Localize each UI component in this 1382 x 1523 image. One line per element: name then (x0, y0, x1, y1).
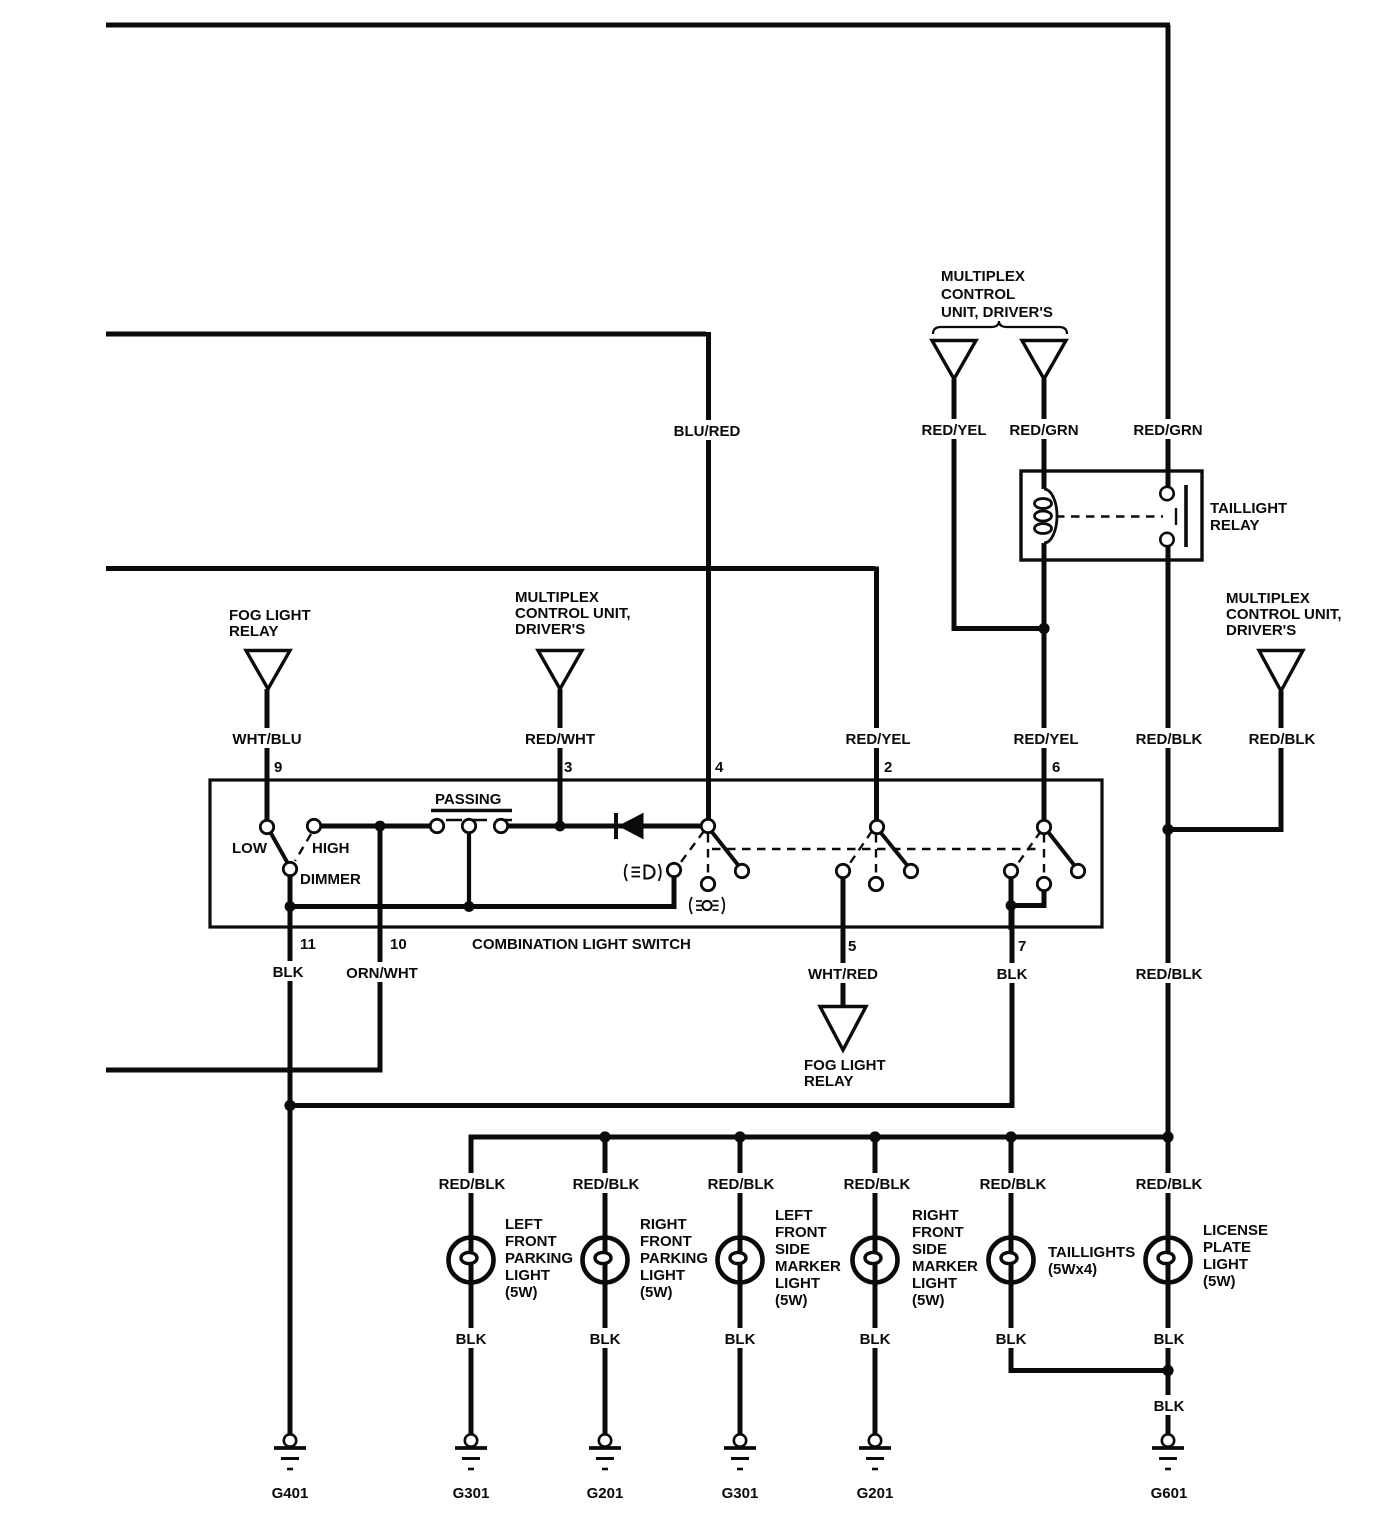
wire: dashed pin2 to left contact (848, 831, 872, 866)
svg-text:RELAY: RELAY (229, 623, 278, 640)
svg-text:LICENSE: LICENSE (1203, 1222, 1268, 1239)
lamp: left front side marker light bulb (718, 1238, 763, 1283)
wire: pin 9 WHT/BLU stem into switch (265, 689, 270, 827)
svg-text:ORN/WHT: ORN/WHT (346, 965, 418, 982)
wire: dashed pin2 to middle contact (875, 834, 877, 879)
wire: BLU/RED vertical to pin 4 (706, 332, 711, 826)
contact circle: HIGH (307, 819, 320, 832)
contact circle: pin 4 pivot (701, 819, 714, 832)
connector triangle: multiplex control unit driver's (pin 3) (538, 651, 582, 690)
brace over multiplex triangles (933, 321, 1067, 334)
contact circle: pin6 right contact (1071, 864, 1084, 877)
svg-text:FRONT: FRONT (505, 1233, 557, 1250)
svg-text:G301: G301 (722, 1485, 759, 1502)
wire: RED/GRN vertical, relay coil to pin 6 (1042, 558, 1047, 827)
svg-text:PARKING: PARKING (505, 1250, 573, 1267)
svg-text:PASSING: PASSING (435, 791, 501, 808)
junction: BLK pin 11 node (284, 1100, 295, 1111)
contact circle: pin 6 pivot (1037, 820, 1050, 833)
wire: dimmer wiper to node, and node bus to headlight contact (290, 870, 674, 907)
wire: lamp drop taillights (1009, 1136, 1014, 1238)
wire: BLU/RED feed horizontal (106, 332, 706, 337)
svg-text:10: 10 (390, 936, 407, 953)
svg-text:(5W): (5W) (1203, 1273, 1236, 1290)
wire: lamp drop right front parking (603, 1136, 608, 1238)
svg-text:RED/BLK: RED/BLK (1249, 731, 1316, 748)
wire: HIGH contact to passing switch (320, 824, 432, 829)
wire: pin 7 BLK down from link (1009, 903, 1014, 930)
wire: RED/BLK stem from right multiplex triangle to main bus (1168, 691, 1281, 830)
svg-text:RED/YEL: RED/YEL (845, 731, 910, 748)
wire: lamp drop left front parking (469, 1282, 474, 1434)
taillight relay coil stem top (1042, 469, 1047, 489)
lamp: license plate light bulb (1146, 1238, 1191, 1283)
taillight relay actuator dashed link (1056, 515, 1163, 517)
wire: dashed dimmer link HIGH to wiper (295, 834, 311, 861)
svg-text:LEFT: LEFT (505, 1216, 543, 1233)
svg-text:RIGHT: RIGHT (640, 1216, 687, 1233)
svg-text:RED/BLK: RED/BLK (1136, 1176, 1203, 1193)
svg-text:CONTROL UNIT,: CONTROL UNIT, (1226, 606, 1342, 623)
svg-text:MARKER: MARKER (912, 1258, 978, 1275)
wire: dashed pin6 to left contact (1016, 831, 1041, 866)
svg-text:COMBINATION LIGHT SWITCH: COMBINATION LIGHT SWITCH (472, 936, 691, 953)
svg-text:RED/BLK: RED/BLK (439, 1176, 506, 1193)
svg-text:RELAY: RELAY (804, 1073, 853, 1090)
svg-text:11: 11 (300, 936, 316, 953)
svg-text:RED/WHT: RED/WHT (525, 731, 595, 748)
svg-text:RED/BLK: RED/BLK (1136, 966, 1203, 983)
svg-text:7: 7 (1018, 938, 1026, 955)
lamp filament wires through bulbs (469, 1238, 474, 1282)
svg-text:(5Wx4): (5Wx4) (1048, 1261, 1097, 1278)
wire: right main vertical, top to taillight relay contact (1166, 25, 1171, 488)
contact circle: pin6 middle contact (1037, 877, 1050, 890)
svg-text:RED/BLK: RED/BLK (573, 1176, 640, 1193)
svg-text:UNIT, DRIVER'S: UNIT, DRIVER'S (941, 304, 1053, 321)
junction: lamp bus at taillights (1005, 1131, 1016, 1142)
svg-text:LEFT: LEFT (775, 1207, 813, 1224)
wire: pin 5 WHT/RED stem to fog light relay (841, 871, 846, 1006)
svg-text:RIGHT: RIGHT (912, 1207, 959, 1224)
wire: top feed bus horizontal (106, 23, 1170, 28)
ground G201 (right front side marker) (859, 1434, 891, 1469)
svg-text:BLK: BLK (996, 1331, 1027, 1348)
lamp: taillights bulb (989, 1238, 1034, 1283)
svg-text:BLK: BLK (1154, 1398, 1185, 1415)
wire: dashed pin4 to headlight contact (678, 831, 704, 866)
svg-text:LOW: LOW (232, 840, 268, 857)
wire: lamp drop left front side marker (738, 1136, 743, 1238)
contact circle: pin 2 pivot (870, 820, 883, 833)
switch blade: dimmer LOW to wiper (268, 828, 291, 869)
svg-text:RED/YEL: RED/YEL (921, 422, 986, 439)
svg-text:RED/GRN: RED/GRN (1133, 422, 1202, 439)
switch blade: pin 2 pole (877, 828, 911, 870)
svg-text:G601: G601 (1151, 1485, 1188, 1502)
svg-text:PARKING: PARKING (640, 1250, 708, 1267)
wire: pin 3 RED/WHT stem into switch (558, 689, 563, 826)
wire: RED/GRN stem from multiplex triangle into relay (1042, 379, 1047, 471)
svg-text:CONTROL UNIT,: CONTROL UNIT, (515, 605, 631, 622)
connector triangle: multiplex control unit driver's RED/GRN (1022, 341, 1066, 380)
svg-text:RED/BLK: RED/BLK (1136, 731, 1203, 748)
contact circle: pin4 right contact (735, 864, 748, 877)
symbol: low beam (≡D) (625, 864, 661, 881)
contact circle: pin4 middle contact (701, 877, 714, 890)
svg-text:BLU/RED: BLU/RED (674, 423, 741, 440)
svg-text:FRONT: FRONT (640, 1233, 692, 1250)
contact circle: LOW (pin 9) (260, 820, 273, 833)
taillight relay box (1021, 471, 1202, 560)
svg-text:RED/BLK: RED/BLK (844, 1176, 911, 1193)
svg-text:WHT/RED: WHT/RED (808, 966, 878, 983)
svg-text:2: 2 (884, 759, 892, 776)
svg-text:(5W): (5W) (640, 1284, 673, 1301)
svg-text:BLK: BLK (273, 964, 304, 981)
diode CR, arrow body (619, 814, 643, 839)
connector triangle: multiplex control unit driver's (right) (1259, 651, 1303, 692)
svg-text:MARKER: MARKER (775, 1258, 841, 1275)
junction: ORN/WHT tap on HIGH wire (pin 10) (375, 821, 386, 832)
svg-text:6: 6 (1052, 759, 1060, 776)
white label backgrounds over wires (231, 419, 1317, 1415)
svg-text:LIGHT: LIGHT (912, 1275, 957, 1292)
ground G401 (274, 1434, 306, 1469)
svg-text:BLK: BLK (860, 1331, 891, 1348)
contact circle: dimmer wiper (283, 862, 296, 875)
ground G201 (right front parking) (589, 1434, 621, 1469)
wire: taillights BLK to license plate BLK junction (1011, 1282, 1168, 1371)
lamp filament ovals (461, 1252, 477, 1263)
svg-text:(5W): (5W) (775, 1292, 808, 1309)
svg-text:WHT/BLU: WHT/BLU (232, 731, 301, 748)
switch blade: pin 6 pole (1045, 828, 1078, 870)
wire: dashed passing switch coupling (446, 819, 513, 821)
taillight relay contact bottom (1160, 533, 1173, 546)
svg-text:LIGHT: LIGHT (775, 1275, 820, 1292)
contact circle: pin2 middle contact (869, 877, 882, 890)
wire: dashed pin6 to middle contact (1043, 834, 1045, 879)
junction: lamp bus at main RED/BLK (1162, 1131, 1173, 1142)
junction: pin 7 link node (1006, 900, 1017, 911)
svg-text:BLK: BLK (590, 1331, 621, 1348)
junction: lamp bus at right front side marker (869, 1131, 880, 1142)
svg-text:BLK: BLK (1154, 1331, 1185, 1348)
svg-text:MULTIPLEX: MULTIPLEX (1226, 590, 1310, 607)
svg-text:RED/BLK: RED/BLK (980, 1176, 1047, 1193)
svg-text:MULTIPLEX: MULTIPLEX (515, 589, 599, 606)
wire: pin 2 vertical (874, 567, 879, 828)
contact circle: passing left (430, 819, 443, 832)
connector triangle: fog light relay (pin 5) (820, 1007, 866, 1051)
svg-text:RED/GRN: RED/GRN (1009, 422, 1078, 439)
combination light switch box (210, 780, 1102, 927)
svg-text:LIGHT: LIGHT (1203, 1256, 1248, 1273)
wire: dashed pin4 to middle contact (707, 834, 709, 878)
svg-text:BLK: BLK (456, 1331, 487, 1348)
lamp: right front side marker light bulb (853, 1238, 898, 1283)
svg-text:SIDE: SIDE (775, 1241, 810, 1258)
wire: passing switch to diode to pin 4 pivot (507, 824, 702, 829)
svg-text:DRIVER'S: DRIVER'S (1226, 622, 1296, 639)
wire: RED/BLK lamp bus horizontal (471, 1137, 1168, 1238)
junction: RED/WHT tap (pin 3) (555, 821, 566, 832)
svg-text:(5W): (5W) (912, 1292, 945, 1309)
ground G301 (left front parking) (455, 1434, 487, 1469)
svg-text:G201: G201 (857, 1485, 894, 1502)
svg-text:3: 3 (564, 759, 572, 776)
wire: BLK from pin 11 down to ground G401 (288, 904, 293, 1434)
junction: passing middle contact node (464, 901, 475, 912)
svg-text:DRIVER'S: DRIVER'S (515, 621, 585, 638)
wire: pin 7 contact link (1011, 877, 1044, 906)
svg-text:9: 9 (274, 759, 282, 776)
wire: dashed mechanical link bar pin4-pin2-pin6 (712, 848, 1041, 850)
svg-text:5: 5 (848, 938, 856, 955)
contact circle: passing right (494, 819, 507, 832)
svg-text:LIGHT: LIGHT (505, 1267, 550, 1284)
svg-text:BLK: BLK (725, 1331, 756, 1348)
taillight relay contact top (1160, 487, 1173, 500)
contact circle: pin 7 contact (1004, 864, 1017, 877)
junction: right multiplex stem joins main bus (1162, 824, 1173, 835)
wire: passing middle contact drop to node bus (467, 832, 471, 906)
connector triangle: multiplex control unit driver's RED/YEL (932, 341, 976, 380)
svg-text:TAILLIGHT: TAILLIGHT (1210, 500, 1287, 517)
svg-text:G201: G201 (587, 1485, 624, 1502)
svg-text:FOG LIGHT: FOG LIGHT (804, 1057, 886, 1074)
ground G301 (left front side marker) (724, 1434, 756, 1469)
svg-text:MULTIPLEX: MULTIPLEX (941, 268, 1025, 285)
svg-text:CONTROL: CONTROL (941, 286, 1015, 303)
wire: lamp drop right front side marker (873, 1136, 878, 1238)
svg-text:SIDE: SIDE (912, 1241, 947, 1258)
lamp: right front parking light bulb (583, 1238, 628, 1283)
svg-text:RED/YEL: RED/YEL (1013, 731, 1078, 748)
symbol: high beam (≡O≡) (690, 897, 725, 914)
connector triangle: fog light relay (top left) (246, 651, 290, 690)
wire: RED/YEL feed horizontal to pin 2 (106, 566, 875, 571)
svg-text:BLK: BLK (997, 966, 1028, 983)
svg-text:FRONT: FRONT (912, 1224, 964, 1241)
ground G601 (1152, 1434, 1184, 1469)
junction: lamp bus at left front side marker (734, 1131, 745, 1142)
wire: ORN/WHT vertical from pin 10 (378, 826, 383, 1073)
taillight relay blade bar (1184, 485, 1188, 547)
contact circle: passing middle (462, 819, 475, 832)
svg-text:RED/BLK: RED/BLK (708, 1176, 775, 1193)
svg-text:HIGH: HIGH (312, 840, 350, 857)
wire: BLK horizontal pin11-to-pin7 (290, 903, 1012, 1106)
junction: RED/YEL joins RED/GRN (1038, 623, 1049, 634)
svg-text:4: 4 (715, 759, 724, 776)
svg-text:RELAY: RELAY (1210, 517, 1259, 534)
taillight relay coil stem bottom (1042, 543, 1047, 560)
wire: right main vertical, relay to ground G601 (1166, 546, 1171, 1434)
svg-text:LIGHT: LIGHT (640, 1267, 685, 1284)
svg-text:FOG LIGHT: FOG LIGHT (229, 607, 311, 624)
svg-text:TAILLIGHTS: TAILLIGHTS (1048, 1244, 1135, 1261)
wire: RED/YEL stem from multiplex triangle (954, 379, 1046, 629)
contact circle: pin 5 contact (836, 864, 849, 877)
svg-text:G301: G301 (453, 1485, 490, 1502)
taillight relay actuator tick (1175, 508, 1177, 525)
contact circle: pin2 right contact (904, 864, 917, 877)
junction: dimmer node (285, 901, 296, 912)
lamp: left front parking light bulb (449, 1238, 494, 1283)
junction: taillights BLK joins license plate BLK (1162, 1365, 1173, 1376)
wire: ORN/WHT horizontal feed (106, 1068, 382, 1073)
switch blade: pin 4 pole (708, 827, 742, 870)
svg-text:(5W): (5W) (505, 1284, 538, 1301)
taillight relay coil loops (1035, 489, 1058, 543)
junction: lamp bus at right front parking (599, 1131, 610, 1142)
svg-text:PLATE: PLATE (1203, 1239, 1251, 1256)
svg-text:FRONT: FRONT (775, 1224, 827, 1241)
contact circle: headlight (≡D) contact (667, 863, 680, 876)
svg-text:G401: G401 (272, 1485, 309, 1502)
diode CR, cathode bar (614, 813, 618, 839)
svg-text:DIMMER: DIMMER (300, 871, 361, 888)
